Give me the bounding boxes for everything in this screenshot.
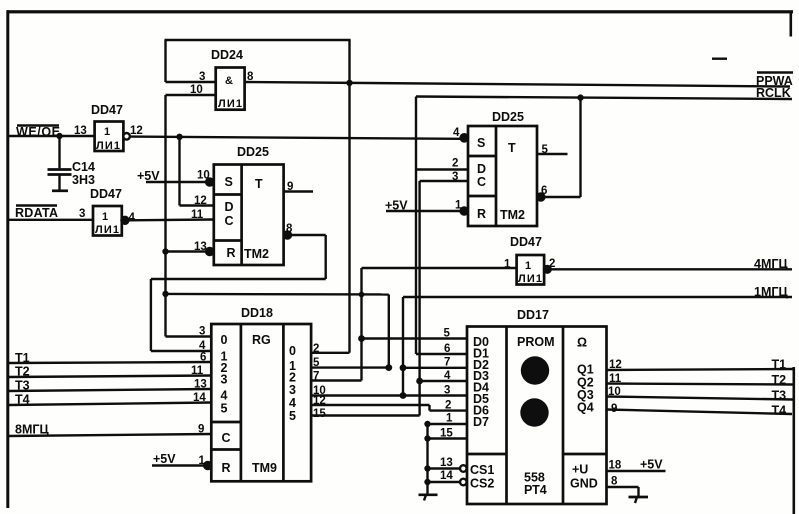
wire 8MHz to DD18 C pin 9 (8, 424, 211, 437)
node DD25.2 S bubble pin 4 (453, 127, 468, 141)
wire DD47.1 output to DD25.2 S input (pin 12 net) (130, 137, 460, 139)
svg-text:T4: T4 (772, 404, 787, 418)
wire DD18 pin 12 to DD17 D5 pin 2 (311, 395, 467, 412)
svg-text:ТМ2: ТМ2 (244, 247, 269, 261)
svg-text:12: 12 (609, 359, 622, 371)
svg-text:DD47: DD47 (510, 235, 542, 249)
wire T2 to DD18 pin 11 (8, 365, 211, 377)
svg-text:4: 4 (444, 370, 451, 382)
node T1 right (output label) (772, 358, 787, 372)
svg-text:3: 3 (199, 71, 205, 83)
svg-text:ЛИ1: ЛИ1 (518, 273, 542, 285)
node T1 (input label) (15, 351, 30, 365)
node 1MGC (output label) (403, 285, 792, 299)
svg-text:8: 8 (611, 476, 618, 488)
svg-text:15: 15 (313, 408, 326, 420)
svg-text:DD25: DD25 (492, 110, 524, 124)
svg-text:7: 7 (313, 371, 319, 383)
svg-text:5: 5 (289, 409, 296, 423)
svg-text:13: 13 (194, 379, 207, 391)
svg-text:+5V: +5V (640, 458, 663, 472)
ground symbol left (419, 495, 438, 501)
node +5V to DD18 R pin 1 (152, 452, 211, 469)
svg-text:3: 3 (444, 385, 450, 397)
svg-text:C: C (222, 431, 231, 445)
svg-text:2: 2 (452, 158, 458, 170)
ground net left of DD17 (D6 D7 CS1 CS2) (424, 413, 467, 494)
wire DD25.1 pin 9 output stub (284, 181, 313, 193)
wire D2 segment to DD17 pin 7 (403, 357, 467, 369)
svg-text:4: 4 (289, 396, 296, 410)
svg-text:1: 1 (455, 200, 462, 212)
wire DD25.2 C input from Q6 net (420, 171, 468, 183)
node +5V to DD25.2 R pin 1 (385, 199, 468, 215)
svg-text:R: R (477, 207, 486, 221)
svg-text:CS1: CS1 (470, 463, 494, 477)
wire T4 to DD18 pin 14 (8, 392, 211, 405)
wire DD24 input pin 3 (166, 71, 216, 83)
svg-text:2: 2 (313, 343, 319, 355)
svg-text:1: 1 (102, 211, 108, 223)
svg-text:4: 4 (129, 212, 136, 224)
svg-text:13: 13 (74, 125, 87, 137)
node junction D-tap on pin12 net (176, 134, 182, 140)
svg-text:T1: T1 (772, 358, 787, 372)
svg-text:18: 18 (609, 460, 622, 472)
node T4 right (output label) (772, 404, 787, 418)
svg-text:5: 5 (221, 402, 228, 416)
wire CS1 pin 13 (428, 457, 467, 472)
svg-text:ЛИ1: ЛИ1 (218, 98, 242, 110)
node WE/OE (input label, overlined) (16, 125, 60, 139)
wire DD24 feedback loop (top) (165, 40, 351, 82)
svg-text:8: 8 (247, 71, 254, 83)
svg-text:1: 1 (199, 455, 206, 467)
wire D3 input to DD17 pin 4 (420, 370, 467, 382)
svg-text:C14: C14 (72, 160, 95, 174)
wire DD25.2 pin 5 output stub (537, 144, 568, 156)
wire DD47.2 output to DD25.1 C input pin 11 (129, 209, 214, 221)
capacitor C14 3H3 (48, 133, 95, 191)
svg-text:7: 7 (444, 357, 450, 369)
svg-text:4МГЦ: 4МГЦ (754, 257, 788, 271)
wire DD17 GND pin 8 to ground (607, 476, 639, 497)
svg-text:11: 11 (609, 373, 622, 385)
wire T3 to DD18 pin 13 (8, 379, 211, 392)
wire RCLK vertical to DD25.2 D and DD17 D1 (416, 97, 468, 355)
node PPWA (output label, overlined) (756, 73, 793, 89)
svg-text:&: & (225, 75, 233, 87)
svg-text:0: 0 (289, 344, 296, 358)
svg-text:12: 12 (130, 125, 143, 137)
svg-text:DD18: DD18 (241, 306, 273, 320)
wire vertical DD24 output down to DD18 pin 2 (Q1 net) (348, 40, 350, 353)
svg-text:4: 4 (199, 340, 206, 352)
wire DD25.2 pin 6 output to RCLK (537, 94, 584, 200)
wire Q4 net vertical (pin10-D4 / D2 / 1MHz) (400, 297, 407, 399)
svg-text:3: 3 (289, 383, 296, 397)
svg-text:14: 14 (193, 392, 206, 404)
node +5V to DD17 +U pin 18 (607, 458, 666, 472)
svg-text:D: D (225, 200, 234, 214)
wire RDATA input to gate DD47.2 pin 3 (8, 208, 93, 220)
wire D0 input to DD17 pin 5 (362, 328, 468, 340)
wire DD18 pin 10 to DD17 D4 pin 3 (311, 385, 467, 398)
svg-text:3: 3 (452, 171, 458, 183)
svg-text:Q4: Q4 (577, 401, 594, 415)
svg-text:4: 4 (221, 389, 228, 403)
svg-text:Т: Т (255, 177, 263, 191)
wire Q3 net vertical (pin7 / D0 / 4MHz) (311, 268, 365, 381)
svg-text:DD24: DD24 (211, 48, 243, 62)
svg-text:R: R (227, 246, 236, 260)
svg-text:C: C (225, 214, 234, 228)
wire PPWA net from DD24 pin 8 to right edge (245, 82, 790, 87)
svg-text:14: 14 (440, 470, 453, 482)
wire DD18 pin 7 output (Q3) (313, 371, 319, 383)
wire DD17 Q1 pin 12 to T1 (607, 359, 794, 371)
PROM dot 1 (521, 356, 549, 384)
svg-text:ЛИ1: ЛИ1 (95, 224, 119, 236)
svg-text:13: 13 (194, 241, 207, 253)
svg-text:5: 5 (444, 328, 451, 340)
svg-text:+5V: +5V (153, 452, 176, 466)
svg-text:S: S (477, 136, 485, 150)
wire DD25.1 R input pin 13 (166, 241, 207, 253)
svg-text:Q1: Q1 (577, 363, 594, 377)
svg-text:R: R (222, 461, 231, 475)
wire tap down to DD25.1 D input (180, 137, 214, 207)
svg-text:3: 3 (79, 208, 85, 220)
svg-text:3Н3: 3Н3 (72, 173, 95, 187)
svg-text:D7: D7 (473, 415, 489, 429)
svg-text:T2: T2 (772, 373, 787, 387)
wire RCLK net horizontal (416, 97, 792, 100)
svg-text:D: D (477, 162, 486, 176)
ground symbol right (629, 497, 649, 503)
svg-text:11: 11 (191, 365, 204, 377)
wire R-net vertical (DD24.10 / R / wireA / DD18.3) (162, 95, 211, 338)
wire DD24 input pin 10 (166, 84, 216, 96)
svg-text:T3: T3 (772, 389, 787, 403)
node T4 (input label) (15, 393, 30, 407)
svg-text:1: 1 (525, 260, 531, 272)
svg-text:ЛИ1: ЛИ1 (96, 140, 120, 152)
svg-text:9: 9 (198, 424, 204, 436)
node 4MGC (output label) (551, 257, 792, 271)
svg-text:GND: GND (570, 477, 598, 491)
wire DD25.1 pin 8 output loop to DD18 pin 4 (151, 223, 326, 352)
node T2 (input label) (15, 365, 30, 379)
svg-text:8: 8 (286, 223, 293, 235)
svg-text:ТМ9: ТМ9 (252, 461, 277, 475)
svg-text:1: 1 (104, 126, 110, 138)
svg-text:DD47: DD47 (91, 103, 123, 117)
svg-text:C: C (477, 175, 486, 189)
svg-text:CS2: CS2 (470, 477, 494, 491)
wire DD17 Q3 pin 10 to T3 (607, 386, 794, 400)
svg-text:0: 0 (221, 333, 228, 347)
svg-text:DD17: DD17 (517, 308, 549, 322)
flip-flop DD25.1 (TM2) (206, 145, 284, 265)
PROM DD17 (556RT4) (467, 308, 607, 504)
svg-text:PROM: PROM (517, 335, 555, 349)
svg-text:13: 13 (440, 457, 453, 469)
svg-text:6: 6 (541, 185, 547, 197)
wire 4MHz gate input from Q3 net (362, 259, 517, 271)
svg-text:RDATA: RDATA (15, 206, 58, 220)
svg-text:9: 9 (611, 403, 617, 415)
flip-flop DD25.2 (TM2) (468, 110, 537, 226)
gate DD47.3 (inverter LI1) 4MHz (510, 235, 555, 285)
svg-text:1МГЦ: 1МГЦ (754, 285, 788, 299)
wire Q6 net vertical (C / D3 / pin15) (311, 181, 423, 420)
svg-text:10: 10 (190, 84, 203, 96)
node +5V to DD25.1 S (137, 169, 210, 183)
node RCLK (output label) (756, 86, 791, 100)
svg-text:12: 12 (194, 195, 207, 207)
wire DD18 pin 5 output (Q2) (311, 357, 389, 369)
node T3 (input label) (15, 379, 30, 393)
svg-text:12: 12 (313, 395, 326, 407)
node junction DD24 output / vertical (346, 80, 352, 86)
svg-text:11: 11 (191, 209, 204, 221)
node T3 right (output label) (772, 389, 787, 403)
wire WE/OE input to gate DD47 pin 13 (8, 125, 95, 137)
svg-text:4: 4 (453, 127, 460, 139)
svg-text:RG: RG (252, 333, 271, 347)
svg-text:+U: +U (572, 463, 588, 477)
svg-text:ТМ2: ТМ2 (500, 208, 525, 222)
border right (790, 11, 796, 514)
svg-text:15: 15 (440, 428, 453, 440)
wire DD17 Q2 pin 11 to T2 (607, 373, 794, 385)
wire CS2 pin 14 (428, 470, 467, 485)
svg-text:3: 3 (221, 373, 228, 387)
svg-text:DD47: DD47 (90, 187, 122, 201)
svg-text:10: 10 (608, 386, 621, 398)
svg-text:3: 3 (199, 326, 205, 338)
svg-text:1: 1 (446, 413, 453, 425)
svg-text:1: 1 (504, 259, 511, 271)
svg-text:Т: Т (508, 141, 516, 155)
gate DD47.2 (inverter LI1) RDATA (90, 187, 136, 236)
wire DD17 Q4 pin 9 to T4 (607, 403, 793, 415)
svg-text:6: 6 (444, 343, 450, 355)
svg-text:5: 5 (542, 144, 549, 156)
svg-text:РТ4: РТ4 (524, 483, 547, 497)
wire A from R-net to DD18 pin 5 column (166, 292, 393, 371)
border left (6, 10, 9, 508)
svg-text:5: 5 (313, 357, 320, 369)
wire D1 input to DD17 pin 6 (444, 343, 450, 355)
wire DD18 pin 2 output (Q1) (311, 343, 349, 355)
svg-text:2: 2 (445, 400, 451, 412)
register DD18 (TM9) (211, 306, 311, 481)
node 8MHz (input label) (15, 423, 49, 437)
gate DD24 (AND, LI1) (211, 48, 254, 110)
gate DD47.1 (inverter LI1) WE/OE (91, 103, 143, 152)
border top (7, 10, 793, 60)
svg-text:Ω: Ω (577, 336, 587, 350)
svg-text:S: S (225, 175, 233, 189)
PROM dot 2 (520, 398, 548, 426)
svg-text:6: 6 (200, 352, 206, 364)
wire T1 to DD18 pin 6 (8, 352, 211, 364)
svg-text:8МГЦ: 8МГЦ (15, 423, 49, 437)
svg-text:DD25: DD25 (237, 145, 269, 159)
svg-text:9: 9 (287, 181, 293, 193)
node T2 right (output label) (772, 373, 787, 387)
node RDATA (input label, overlined) (15, 206, 58, 221)
